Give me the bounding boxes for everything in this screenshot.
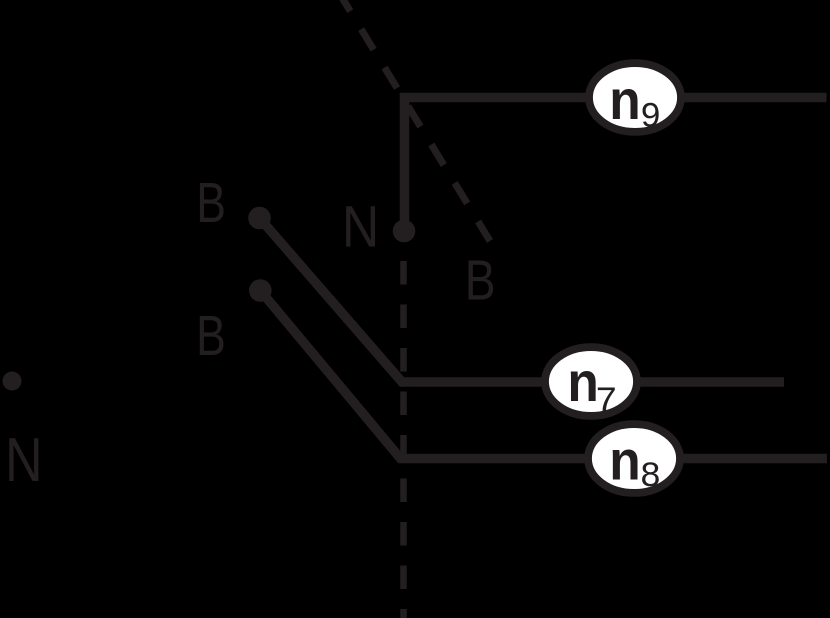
letter B right <box>465 248 496 311</box>
svg-text:N: N <box>342 193 379 259</box>
node dot B (lower branch start) <box>249 279 272 302</box>
svg-text:N: N <box>5 426 43 495</box>
svg-text:B: B <box>196 171 226 234</box>
letter B lower <box>196 304 226 367</box>
svg-text:n: n <box>609 430 640 492</box>
wire n8: diagonal and horizontal <box>260 291 827 459</box>
node dot B (upper branch start) <box>248 207 271 230</box>
vertical dashed line below junction <box>400 261 407 618</box>
label n9 <box>609 69 640 131</box>
letter N left edge <box>5 426 43 495</box>
svg-text:n: n <box>609 69 640 131</box>
label n7 <box>567 351 598 413</box>
svg-text:8: 8 <box>641 456 661 494</box>
svg-text:B: B <box>465 248 496 311</box>
svg-text:9: 9 <box>641 97 660 134</box>
ellipse n7 <box>545 347 637 416</box>
ellipse n8 <box>588 424 680 493</box>
svg-text:n: n <box>567 351 598 413</box>
letter N top middle <box>342 193 379 259</box>
svg-text:B: B <box>196 304 226 367</box>
left node dot N <box>3 372 22 391</box>
wire n7: diagonal and horizontal <box>260 218 785 382</box>
dashed branch line from top to node B <box>338 0 490 241</box>
svg-text:7: 7 <box>596 380 617 418</box>
letter B upper <box>196 171 226 234</box>
label n8 <box>609 430 640 492</box>
wire n9: horizontal line and vertical drop <box>405 98 827 232</box>
ellipse n9 <box>589 63 681 132</box>
junction dot <box>393 220 416 243</box>
